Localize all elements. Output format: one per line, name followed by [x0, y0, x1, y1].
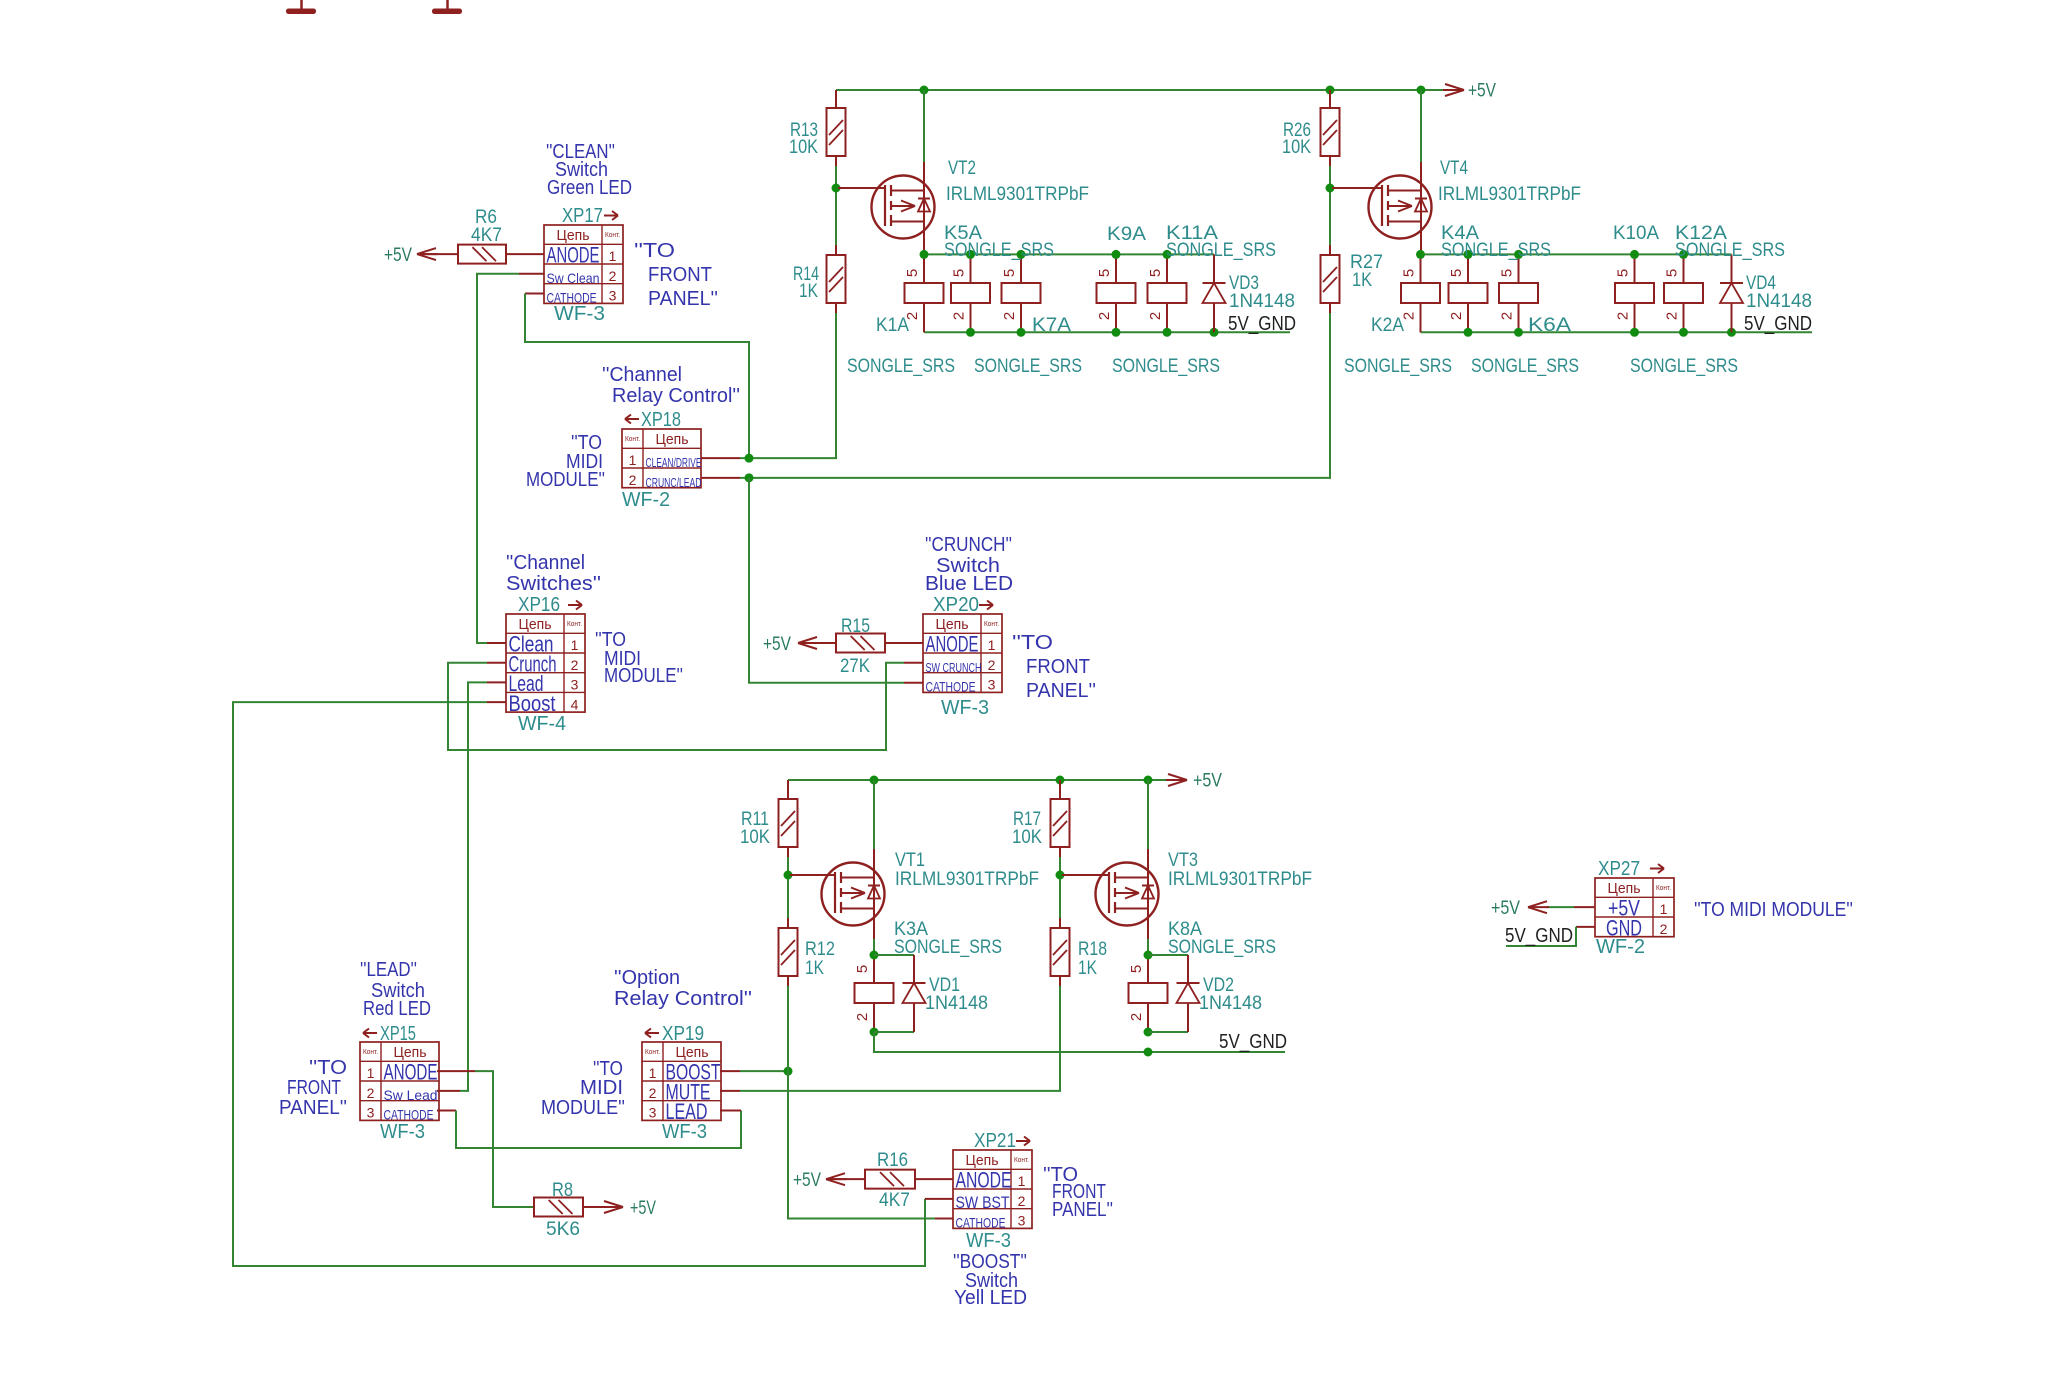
label K8A value SONGLE_SRS — [1168, 937, 1276, 958]
note LEAD Switch Red LED — [360, 959, 431, 1020]
wire XP16 pin2 Crunch to XP20 SW CRUNCH — [448, 663, 923, 750]
svg-text:VT4: VT4 — [1440, 158, 1468, 179]
wire R16 to +5V — [828, 1178, 865, 1180]
svg-text:2: 2 — [1448, 312, 1465, 320]
svg-text:Конт.: Конт. — [1014, 1157, 1029, 1164]
svg-text:Цепь: Цепь — [394, 1044, 427, 1061]
svg-text:SONGLE_SRS: SONGLE_SRS — [1168, 937, 1276, 958]
svg-text:''LEAD'': ''LEAD'' — [360, 959, 417, 981]
relay coil K3A SONGLE_SRS — [855, 955, 894, 1032]
junction bottom bus group2 #1 — [1464, 328, 1473, 337]
label K1A — [876, 315, 909, 336]
svg-text:WF-3: WF-3 — [941, 697, 989, 719]
svg-text:CATHODE: CATHODE — [956, 1215, 1006, 1231]
global label +5V (R16) — [793, 1170, 847, 1191]
junction bottom bus group1 #5 — [1210, 328, 1219, 337]
junction bottom bus group1 #1 — [966, 328, 975, 337]
label R18 value 1K — [1078, 939, 1107, 979]
connector XP16 title — [518, 594, 582, 616]
svg-text:Цепь: Цепь — [656, 431, 689, 448]
wire R11-R12 gate node VT1 — [787, 857, 789, 918]
svg-text:2: 2 — [1128, 1013, 1145, 1021]
pin numbers 5/2 of K1A — [904, 269, 921, 320]
svg-text:MODULE'': MODULE'' — [604, 665, 683, 687]
junction top bus group2 #4 — [1630, 250, 1639, 259]
svg-text:+5V: +5V — [630, 1198, 656, 1219]
svg-text:XP18: XP18 — [641, 409, 681, 431]
junction bottom bus group2 #5 — [1727, 328, 1736, 337]
svg-text:5: 5 — [1096, 269, 1113, 277]
label K10A value SONGLE_SRS — [1630, 356, 1738, 377]
svg-text:27K: 27K — [840, 656, 870, 677]
svg-text:2: 2 — [1499, 312, 1516, 320]
wire R15 to +5V — [800, 642, 836, 644]
svg-text:SONGLE_SRS: SONGLE_SRS — [1675, 240, 1785, 261]
svg-text:R8: R8 — [552, 1180, 573, 1201]
wire VT2 gate pin — [838, 187, 885, 189]
note TO MIDI MODULE (XP16) — [595, 629, 683, 687]
svg-text:2: 2 — [629, 472, 637, 488]
svg-text:10K: 10K — [789, 137, 818, 158]
svg-text:IRLML9301TRPbF: IRLML9301TRPbF — [895, 869, 1039, 890]
resistor R17 — [1051, 780, 1070, 857]
resistor R8 — [534, 1198, 583, 1217]
resistor R6 — [458, 245, 506, 264]
relay coil K11A SONGLE_SRS — [1148, 254, 1187, 332]
junction top rail at VT4 source — [1417, 86, 1426, 95]
svg-text:IRLML9301TRPbF: IRLML9301TRPbF — [946, 184, 1089, 205]
pin numbers 5/2 of K10A — [1615, 269, 1632, 320]
svg-text:2: 2 — [1096, 312, 1113, 320]
svg-text:2: 2 — [1001, 312, 1018, 320]
label K5A — [944, 223, 982, 244]
power symbol (cut off at sheet top, right) — [432, 0, 462, 14]
svg-text:XP21: XP21 — [974, 1130, 1016, 1152]
junction top rail at R26 — [1326, 86, 1335, 95]
svg-text:CATHODE: CATHODE — [926, 679, 976, 695]
svg-text:1: 1 — [988, 637, 996, 653]
svg-text:Relay Control'': Relay Control'' — [612, 385, 740, 407]
label XP15 value WF-3 — [380, 1121, 425, 1143]
wire VD1 top link — [874, 954, 914, 956]
label VD3 value 1N4148 — [1229, 291, 1295, 312]
connector XP20 table — [923, 614, 1002, 695]
connector XP15 title — [363, 1023, 416, 1045]
wire XP20 pin1 to R15 — [885, 642, 923, 644]
relay coil K12A SONGLE_SRS — [1664, 254, 1703, 332]
relay coil K6A SONGLE_SRS — [1449, 254, 1488, 332]
svg-text:2: 2 — [1660, 921, 1668, 937]
wire VD1 bottom link — [874, 1031, 914, 1033]
relay coil K2A SONGLE_SRS — [1401, 254, 1440, 332]
label K7A — [1032, 315, 1071, 336]
global label +5V (R15) — [763, 634, 819, 655]
svg-text:K7A: K7A — [1032, 315, 1071, 336]
svg-text:1N4148: 1N4148 — [925, 993, 988, 1014]
pin numbers 5/2 of K5A — [1001, 269, 1018, 320]
wire VT1 gate pin — [790, 874, 835, 876]
label K11A — [1166, 223, 1218, 244]
resistor R14 — [827, 245, 846, 313]
resistor R18 — [1051, 918, 1070, 986]
svg-text:SW CRUNCH: SW CRUNCH — [926, 661, 982, 675]
svg-text:Цепь: Цепь — [1608, 880, 1641, 897]
svg-text:Конт.: Конт. — [363, 1049, 378, 1056]
svg-text:1N4148: 1N4148 — [1229, 291, 1295, 312]
svg-text:MIDI: MIDI — [580, 1077, 623, 1099]
svg-text:1N4148: 1N4148 — [1199, 993, 1262, 1014]
svg-text:Конт.: Конт. — [645, 1049, 660, 1056]
wire VD2 bottom link — [1148, 1031, 1188, 1033]
wire R13-R14 gate node VT2 — [835, 166, 837, 245]
junction VT3 drain / K8A top — [1144, 951, 1153, 960]
junction bottom bus group2 #3 — [1630, 328, 1639, 337]
label R17 value 10K — [1012, 809, 1042, 848]
svg-text:10K: 10K — [1012, 827, 1042, 848]
resistor R16 — [865, 1170, 915, 1189]
wire XP21 pin1 to R16 — [915, 1178, 953, 1180]
label VT3 — [1168, 850, 1198, 871]
svg-text:3: 3 — [609, 288, 617, 304]
svg-text:SONGLE_SRS: SONGLE_SRS — [1166, 240, 1276, 261]
junction bottom bus group1 #3 — [1112, 328, 1121, 337]
net label 5V_GND (group 1) — [1228, 313, 1296, 335]
svg-text:R15: R15 — [841, 616, 870, 637]
transistor VT2 IRLML9301TRPbF (P-MOSFET) — [872, 90, 935, 254]
label K10A — [1613, 223, 1659, 244]
connector XP15 table — [360, 1042, 439, 1123]
junction lower rail at VT3 source — [1144, 776, 1153, 785]
label K11A value SONGLE_SRS — [1166, 240, 1276, 261]
wire +5V rail lower — [788, 779, 1168, 781]
svg-text:Relay Control'': Relay Control'' — [614, 988, 752, 1010]
wire XP16 pin3 Lead to XP15 Sw Lead — [437, 682, 506, 1090]
label K4A value SONGLE_SRS — [1441, 240, 1551, 261]
wire R12 to BOOST node — [787, 986, 789, 1071]
svg-text:Цепь: Цепь — [557, 227, 590, 244]
pin numbers 5/2 of K12A — [1664, 269, 1681, 320]
pin numbers 5/2 of K7A — [951, 269, 968, 320]
label R8 value 5K6 — [546, 1180, 580, 1240]
junction gate node VT2 — [832, 184, 841, 193]
label VT1 value IRLML9301TRPbF — [895, 869, 1039, 890]
global label +5V (XP27) — [1491, 898, 1549, 919]
note TO MIDI MODULE (XP18) — [526, 432, 605, 491]
note CLEAN Switch Green LED — [546, 141, 632, 199]
svg-text:10K: 10K — [740, 827, 770, 848]
svg-text:Blue LED: Blue LED — [925, 573, 1013, 595]
svg-text:XP27: XP27 — [1598, 858, 1640, 880]
svg-text:''CRUNCH'': ''CRUNCH'' — [925, 534, 1012, 556]
svg-text:2: 2 — [571, 657, 579, 673]
wire R26-R27 gate node VT4 — [1329, 166, 1331, 245]
svg-text:1: 1 — [571, 637, 579, 653]
junction bottom bus group2 #4 — [1679, 328, 1688, 337]
wire bottom bus relay group 2 (5V_GND) — [1421, 331, 1813, 333]
connector XP18 table — [622, 429, 702, 490]
label VD4 — [1746, 273, 1776, 294]
wire XP27 pin1 +5V — [1547, 906, 1595, 908]
junction top bus group1 #3 — [1017, 250, 1026, 259]
junction top bus group2 #3 — [1514, 250, 1523, 259]
svg-text:5: 5 — [1448, 269, 1465, 277]
wire top bus relay group 2 — [1421, 253, 1732, 255]
note CRUNCH Switch Blue LED — [925, 534, 1013, 595]
svg-text:1: 1 — [629, 452, 637, 468]
svg-text:5: 5 — [1128, 965, 1145, 973]
svg-text:SONGLE_SRS: SONGLE_SRS — [1112, 356, 1220, 377]
svg-text:XP17: XP17 — [562, 205, 603, 227]
wire XP19 pin1 BOOST — [720, 1070, 788, 1072]
svg-text:''TO: ''TO — [1012, 632, 1053, 654]
svg-text:R16: R16 — [877, 1150, 908, 1171]
label VT4 value IRLML9301TRPbF — [1438, 184, 1581, 205]
svg-text:Цепь: Цепь — [519, 616, 552, 633]
junction top bus group1 #1 — [920, 250, 929, 259]
label K4A — [1441, 223, 1479, 244]
svg-text:Конт.: Конт. — [625, 436, 640, 443]
svg-text:2: 2 — [988, 657, 996, 673]
connector XP21 table — [953, 1150, 1032, 1231]
svg-text:5: 5 — [854, 965, 871, 973]
junction gate node VT3 — [1056, 871, 1065, 880]
svg-text:2: 2 — [1147, 312, 1164, 320]
svg-text:+5V: +5V — [1468, 81, 1496, 102]
junction lower rail at R17 — [1056, 776, 1065, 785]
svg-text:2: 2 — [367, 1085, 375, 1101]
label XP20 value WF-3 — [941, 697, 989, 719]
svg-text:IRLML9301TRPbF: IRLML9301TRPbF — [1168, 869, 1312, 890]
svg-text:SONGLE_SRS: SONGLE_SRS — [847, 356, 955, 377]
global label +5V (top rail) — [1443, 81, 1496, 102]
label K8A — [1168, 919, 1202, 940]
junction top bus group1 #4 — [1112, 250, 1121, 259]
svg-text:4: 4 — [571, 696, 579, 712]
wire bottom bus relay group 1 (5V_GND) — [924, 331, 1290, 333]
svg-text:Цепь: Цепь — [936, 616, 969, 633]
svg-text:1K: 1K — [799, 281, 818, 302]
wire XP18 pin2 CRUNC/LEAD to R27 — [701, 313, 1330, 478]
connector XP19 table — [642, 1042, 721, 1124]
svg-text:''Option: ''Option — [614, 967, 680, 989]
junction bottom bus group1 #2 — [1017, 328, 1026, 337]
label K3A value SONGLE_SRS — [894, 937, 1002, 958]
svg-text:WF-3: WF-3 — [380, 1121, 425, 1143]
label VT2 — [948, 158, 976, 179]
pin numbers 5/2 of K6A — [1448, 269, 1465, 320]
svg-text:5: 5 — [1401, 269, 1418, 277]
svg-text:''TO: ''TO — [309, 1057, 347, 1079]
relay coil K4A SONGLE_SRS — [1499, 254, 1538, 332]
svg-text:5: 5 — [951, 269, 968, 277]
junction top bus group2 #5 — [1679, 250, 1688, 259]
label K6A value SONGLE_SRS — [1471, 356, 1579, 377]
svg-text:5: 5 — [1664, 269, 1681, 277]
label K3A — [894, 919, 928, 940]
junction K8A bottom — [1144, 1028, 1153, 1037]
svg-text:FRONT: FRONT — [1026, 656, 1090, 678]
svg-text:WF-2: WF-2 — [622, 489, 670, 511]
svg-text:K2A: K2A — [1371, 315, 1404, 336]
svg-text:''Channel: ''Channel — [506, 552, 585, 574]
net label 5V_GND (lower) — [1219, 1031, 1287, 1053]
resistor R27 — [1321, 245, 1340, 313]
label VD4 value 1N4148 — [1746, 291, 1812, 312]
junction top bus group1 #5 — [1163, 250, 1172, 259]
relay coil K9A SONGLE_SRS — [1097, 254, 1136, 332]
wire R6 to +5V — [420, 253, 458, 255]
wire VD2 top link — [1148, 954, 1188, 956]
svg-text:PANEL'': PANEL'' — [1026, 680, 1096, 702]
resistor R13 — [827, 90, 846, 166]
label VT1 — [895, 850, 925, 871]
diode VD3 1N4148 — [1203, 254, 1226, 332]
pin numbers 5/2 of K4A — [1499, 269, 1516, 320]
svg-text:5V_GND: 5V_GND — [1744, 313, 1812, 335]
svg-text:3: 3 — [367, 1105, 375, 1121]
diode VD2 1N4148 — [1177, 955, 1200, 1032]
svg-text:Цепь: Цепь — [676, 1044, 709, 1061]
svg-text:2: 2 — [609, 268, 617, 284]
svg-text:5V_GND: 5V_GND — [1219, 1031, 1287, 1053]
svg-text:XP16: XP16 — [518, 594, 560, 616]
connector XP16 table — [506, 614, 585, 716]
junction gate node VT4 — [1326, 184, 1335, 193]
label VD3 — [1229, 273, 1259, 294]
connector XP17 table — [544, 225, 623, 306]
svg-text:SONGLE_SRS: SONGLE_SRS — [944, 240, 1054, 261]
wire XP27 pin2 GND — [1506, 927, 1595, 946]
svg-text:ANODE: ANODE — [956, 1168, 1012, 1193]
label R26 value 10K — [1282, 120, 1311, 158]
wire XP16 pin4 Boost to XP21 SW BST — [233, 702, 953, 1266]
label K2A — [1371, 315, 1404, 336]
wire XP17 pin1 to R6 — [506, 253, 544, 255]
wire bottom bus lower (5V_GND) — [874, 1032, 1285, 1052]
connector XP19 title — [645, 1023, 704, 1045]
diode VD1 1N4148 — [903, 955, 926, 1032]
connector XP27 table — [1595, 878, 1674, 940]
pin numbers 5/2 of K8A — [1128, 965, 1145, 1021]
relay coil K7A SONGLE_SRS — [951, 254, 990, 332]
wire R8 to +5V — [583, 1206, 605, 1208]
pin numbers 5/2 of K2A — [1401, 269, 1418, 320]
wire XP17 pin3 CATHODE — [525, 294, 749, 459]
svg-text:SONGLE_SRS: SONGLE_SRS — [894, 937, 1002, 958]
wire top bus relay group 1 — [924, 253, 1214, 255]
svg-text:WF-3: WF-3 — [662, 1121, 707, 1143]
svg-text:XP20: XP20 — [933, 594, 979, 616]
label XP19 value WF-3 — [662, 1121, 707, 1143]
svg-text:PANEL'': PANEL'' — [1052, 1199, 1113, 1221]
svg-text:SONGLE_SRS: SONGLE_SRS — [1630, 356, 1738, 377]
svg-text:1K: 1K — [1078, 958, 1097, 979]
transistor VT4 IRLML9301TRPbF (P-MOSFET) — [1369, 90, 1432, 254]
svg-text:1K: 1K — [1352, 270, 1372, 291]
note Channel Relay Control — [602, 364, 740, 407]
svg-text:''TO MIDI MODULE'': ''TO MIDI MODULE'' — [1694, 899, 1853, 921]
svg-text:ANODE: ANODE — [384, 1060, 438, 1085]
wire XP18 pin2 to XP20 CATHODE — [749, 478, 923, 683]
label VT2 value IRLML9301TRPbF — [946, 184, 1089, 205]
svg-text:2: 2 — [854, 1013, 871, 1021]
svg-text:1N4148: 1N4148 — [1746, 291, 1812, 312]
connector XP20 title — [933, 594, 993, 616]
svg-text:MODULE'': MODULE'' — [526, 469, 605, 491]
junction bottom bus group1 #4 — [1163, 328, 1172, 337]
wire VT4 gate pin — [1332, 187, 1382, 189]
note TO FRONT PANEL (XP21) — [1043, 1164, 1113, 1221]
junction top bus group2 #1 — [1416, 250, 1425, 259]
svg-text:ANODE: ANODE — [926, 632, 979, 657]
svg-text:+5V: +5V — [763, 634, 791, 655]
svg-text:VT2: VT2 — [948, 158, 976, 179]
label R27 value 1K — [1350, 252, 1383, 291]
pin numbers 5/2 of K11A — [1147, 269, 1164, 320]
note BOOST Switch Yell LED — [953, 1251, 1027, 1309]
relay coil K1A SONGLE_SRS — [905, 254, 944, 332]
net label 5V_GND (group 2) — [1744, 313, 1812, 335]
svg-text:+5V: +5V — [384, 245, 412, 266]
svg-text:1: 1 — [609, 248, 617, 264]
wire XP17 pin2 Sw Clean — [477, 274, 544, 643]
resistor R11 — [779, 780, 798, 857]
svg-text:Boost: Boost — [509, 691, 556, 716]
label XP21 value WF-3 — [966, 1230, 1011, 1252]
svg-text:+5V: +5V — [1193, 771, 1222, 792]
svg-text:R18: R18 — [1078, 939, 1107, 960]
svg-text:K10A: K10A — [1613, 223, 1659, 244]
svg-text:WF-4: WF-4 — [518, 713, 566, 735]
svg-text:WF-2: WF-2 — [1596, 936, 1645, 958]
label XP27 value WF-2 — [1596, 936, 1645, 958]
net label 5V_GND (XP27) — [1505, 925, 1573, 947]
svg-text:SONGLE_SRS: SONGLE_SRS — [1344, 356, 1452, 377]
svg-text:VT1: VT1 — [895, 850, 925, 871]
transistor VT3 IRLML9301TRPbF (P-MOSFET) — [1096, 780, 1159, 955]
label R11 value 10K — [740, 809, 770, 848]
note TO FRONT PANEL (XP17) — [634, 240, 718, 310]
svg-text:K1A: K1A — [876, 315, 909, 336]
svg-text:SW BST: SW BST — [956, 1193, 1010, 1212]
wire R17-R18 gate node VT3 — [1059, 857, 1061, 918]
note TO MIDI MODULE (XP19) — [541, 1058, 625, 1119]
svg-text:5: 5 — [1615, 269, 1632, 277]
svg-text:FRONT: FRONT — [648, 264, 712, 286]
svg-text:Switches'': Switches'' — [506, 573, 601, 595]
svg-text:WF-3: WF-3 — [554, 303, 605, 325]
note TO FRONT PANEL (XP15) — [279, 1057, 347, 1119]
svg-text:MODULE'': MODULE'' — [541, 1097, 625, 1119]
svg-text:PANEL'': PANEL'' — [648, 288, 718, 310]
label K9A — [1107, 224, 1146, 245]
svg-text:IRLML9301TRPbF: IRLML9301TRPbF — [1438, 184, 1581, 205]
junction K3A bottom — [870, 1028, 879, 1037]
label K12A value SONGLE_SRS — [1675, 240, 1785, 261]
label K12A — [1675, 223, 1727, 244]
label R6 value 4K7 — [471, 207, 502, 246]
junction top bus group2 #2 — [1464, 250, 1473, 259]
label VD2 value 1N4148 — [1199, 993, 1262, 1014]
wire BOOST node to XP21 CATHODE — [788, 1071, 953, 1218]
junction VT1 drain / K3A top — [870, 951, 879, 960]
svg-text:WF-3: WF-3 — [966, 1230, 1011, 1252]
svg-text:Sw Clean: Sw Clean — [547, 270, 600, 286]
svg-text:VT3: VT3 — [1168, 850, 1198, 871]
svg-text:CLEAN/DRIVE: CLEAN/DRIVE — [646, 456, 702, 470]
resistor R26 — [1321, 90, 1340, 166]
global label +5V (lower rail) — [1166, 771, 1222, 792]
